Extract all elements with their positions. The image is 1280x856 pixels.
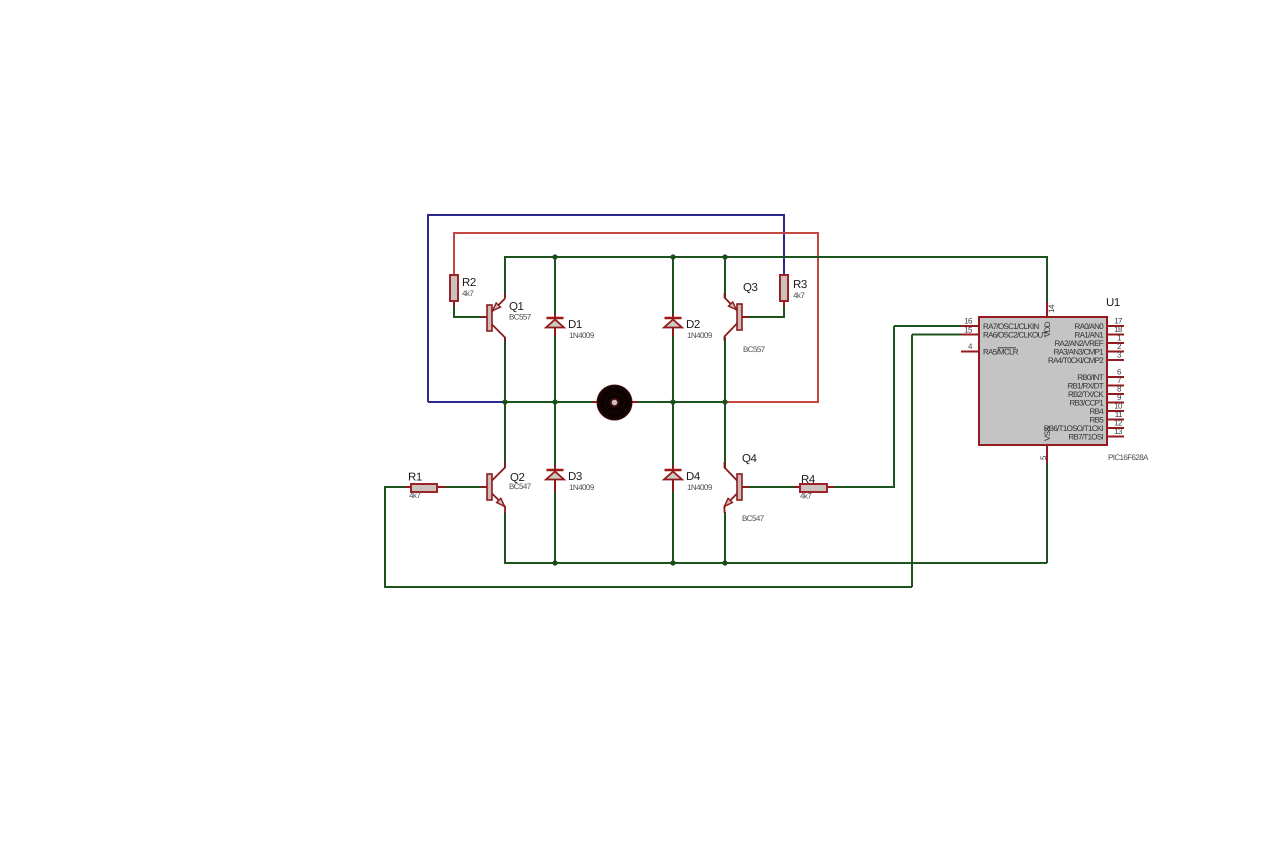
junction top rail / D1 <box>552 254 557 259</box>
svg-text:RA6/OSC2/CLKOUT: RA6/OSC2/CLKOUT <box>983 331 1048 340</box>
resistor R2 <box>450 275 476 306</box>
transistor Q3 <box>725 282 766 354</box>
svg-text:1N4009: 1N4009 <box>569 483 595 492</box>
svg-text:R3: R3 <box>793 279 807 291</box>
svg-text:RB7/T1OSI: RB7/T1OSI <box>1068 433 1103 442</box>
U1 pin 3 RA4/T0CKI/CMP2 <box>1048 351 1124 366</box>
U1 pin 14 VDD top <box>1043 302 1056 337</box>
svg-text:BC547: BC547 <box>742 514 765 523</box>
svg-text:RA4/T0CKI/CMP2: RA4/T0CKI/CMP2 <box>1048 356 1104 365</box>
transistor Q1 <box>481 293 532 342</box>
junction motor rail / Q3-Q4 collectors <box>722 399 727 404</box>
svg-text:1N4009: 1N4009 <box>569 331 595 340</box>
diode D3 <box>546 465 595 492</box>
svg-text:16: 16 <box>964 317 973 326</box>
svg-text:Q4: Q4 <box>742 453 758 465</box>
svg-text:4k7: 4k7 <box>462 289 474 298</box>
junction motor rail / D2-D4 <box>670 399 675 404</box>
junction top rail / D2 <box>670 254 675 259</box>
IC U1 PIC16F628A body <box>979 297 1149 462</box>
diode D4 <box>664 465 713 492</box>
svg-text:D2: D2 <box>686 319 700 331</box>
U1 pin 2 RA3/AN3/CMP1 <box>1054 342 1124 357</box>
svg-text:R4: R4 <box>801 474 816 486</box>
transistor Q2 <box>481 462 532 513</box>
resistor R1 <box>405 472 446 501</box>
resistor R3 <box>780 275 807 306</box>
wire green PIC links <box>385 326 961 588</box>
svg-text:PIC16F628A: PIC16F628A <box>1108 453 1149 462</box>
U1 pin 6 RB0/INT <box>1077 368 1124 383</box>
junction bottom rail / Q4 emitter <box>722 560 727 565</box>
junction bottom rail / D4 <box>670 560 675 565</box>
U1 pin 13 RB7/T1OSI <box>1068 427 1124 442</box>
svg-text:R1: R1 <box>408 472 422 484</box>
svg-text:1N4009: 1N4009 <box>687 331 713 340</box>
junction top rail / Q3 emitter <box>722 254 727 259</box>
U1 pin 10 RB4 <box>1090 402 1124 417</box>
U1 pin 12 RB6/T1OSO/T1CKI <box>1044 419 1124 434</box>
wire green motor rail <box>505 336 725 468</box>
diode D1 <box>546 314 595 340</box>
svg-text:VDD: VDD <box>1043 321 1052 337</box>
svg-text:Q3: Q3 <box>743 282 758 294</box>
svg-text:D3: D3 <box>568 471 582 483</box>
svg-text:U1: U1 <box>1106 297 1120 309</box>
svg-text:4k7: 4k7 <box>409 491 421 500</box>
svg-text:13: 13 <box>1114 427 1123 436</box>
motor M1 <box>592 385 638 420</box>
wire green bottom rail VSS <box>505 337 1047 564</box>
junction bottom rail / D3 <box>552 560 557 565</box>
diode D2 <box>664 314 713 340</box>
junction motor rail / D1-D3 <box>552 399 557 404</box>
svg-text:R2: R2 <box>462 277 476 289</box>
resistor R4 <box>794 474 834 501</box>
U1 pin 16 RA7/OSC1/CLKIN <box>961 317 1039 332</box>
U1 pin 7 RB1/RX/DT <box>1068 376 1125 391</box>
U1 pin 8 RB2/TX/CK <box>1068 385 1124 400</box>
svg-text:D1: D1 <box>568 319 582 331</box>
U1 pin 18 RA1/AN1 <box>1075 325 1124 340</box>
svg-text:4k7: 4k7 <box>800 492 812 501</box>
wire green top rail VDD <box>505 256 1047 314</box>
svg-text:14: 14 <box>1047 304 1056 313</box>
transistor Q4 <box>724 453 764 523</box>
wire green base links R2 R3 <box>454 301 784 318</box>
svg-text:4k7: 4k7 <box>793 291 805 300</box>
U1 pin 4 RA5/MCLR <box>961 342 1019 357</box>
U1 pin 9 RB3/CCP1 <box>1069 393 1124 408</box>
svg-text:BC547: BC547 <box>509 482 532 491</box>
U1 pin 1 RA2/AN2/VREF <box>1054 334 1124 349</box>
svg-text:BC557: BC557 <box>509 313 532 322</box>
wire green R1 Q2 R4 Q4 rows <box>385 486 894 488</box>
U1 pin 11 RB5 <box>1090 410 1124 425</box>
U1 pin 5 VSS bottom <box>1039 427 1052 463</box>
wire blue net top <box>428 214 784 402</box>
wire red net top <box>454 232 818 403</box>
U1 pin 17 RA0/AN0 <box>1075 317 1124 332</box>
junction motor rail / Q1-Q2 collectors <box>502 399 507 404</box>
svg-text:BC557: BC557 <box>743 345 766 354</box>
svg-text:1N4009: 1N4009 <box>687 483 713 492</box>
svg-text:Q1: Q1 <box>509 301 524 313</box>
svg-text:D4: D4 <box>686 471 701 483</box>
svg-text:RA5/MCLR: RA5/MCLR <box>983 348 1019 357</box>
U1 pin 15 RA6/OSC2/CLKOUT <box>961 326 1048 340</box>
svg-text:15: 15 <box>964 326 973 335</box>
